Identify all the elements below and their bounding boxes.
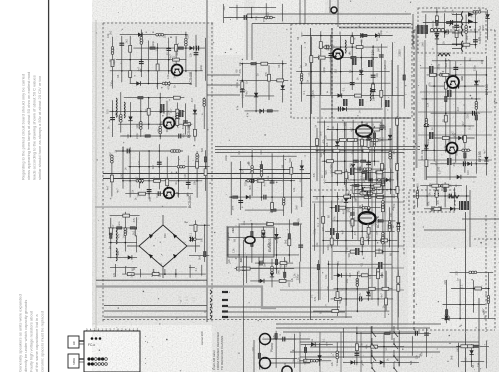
svg-text:Regarding to the printed circu: Regarding to the printed circuit board s…: [21, 74, 26, 180]
svg-text:ceramic spacers must be replac: ceramic spacers must be replaced: [40, 311, 45, 372]
svg-text:directly be under which capaci: directly be under which capacity grounds: [23, 300, 28, 372]
svg-text:Generally speakers as units we: Generally speakers as units were expande…: [18, 294, 23, 372]
svg-text:views appearing from lamps at: views appearing from lamps at about 50 o…: [26, 72, 31, 180]
svg-text:of the same capacitance but in: of the same capacitance but in a: [34, 314, 39, 372]
svg-text:leads according to the drawing: leads according to the drawing shown of …: [32, 75, 37, 180]
svg-text:Faulty high voltage resistors: Faulty high voltage resistors about: [29, 310, 34, 372]
svg-text:similar should have as always: similar should have as always a 50v at a…: [37, 75, 42, 180]
svg-text:AC: AC: [72, 341, 76, 345]
svg-text:SPKR: SPKR: [72, 358, 76, 365]
